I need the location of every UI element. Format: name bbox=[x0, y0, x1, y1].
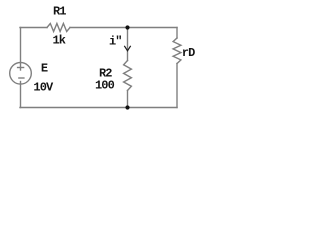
minus sign of source E bbox=[19, 77, 24, 79]
resistor R1 bbox=[47, 24, 70, 32]
resistor rD bbox=[173, 38, 181, 64]
wire right branch lower bbox=[176, 64, 178, 108]
wire middle branch lower (R2 to bottom node) bbox=[127, 91, 129, 108]
wire middle branch upper (node B to R2) bbox=[127, 28, 129, 61]
junction node dot bottom bbox=[125, 105, 129, 109]
svg-text:rD: rD bbox=[182, 46, 195, 60]
svg-text:10V: 10V bbox=[33, 81, 54, 95]
svg-text:i": i" bbox=[109, 34, 122, 48]
resistor R2 bbox=[124, 61, 132, 91]
svg-text:E: E bbox=[41, 62, 48, 76]
svg-text:100: 100 bbox=[95, 79, 115, 93]
current arrow i" (arrowhead on middle branch) bbox=[124, 46, 130, 51]
svg-text:R1: R1 bbox=[53, 5, 66, 19]
svg-text:1k: 1k bbox=[53, 33, 66, 47]
wire bottom bbox=[20, 107, 177, 109]
plus sign of source E bbox=[18, 67, 24, 69]
wire source bottom lead bbox=[20, 82, 22, 108]
wire top-left (node A to R1) bbox=[20, 27, 47, 29]
wire left vertical (into source +) bbox=[20, 28, 22, 71]
voltage source E circle bbox=[10, 63, 32, 85]
wire top-right (R1 to node B and rD branch) bbox=[70, 27, 177, 29]
junction node dot top bbox=[125, 25, 129, 29]
wire right branch upper bbox=[176, 28, 178, 39]
